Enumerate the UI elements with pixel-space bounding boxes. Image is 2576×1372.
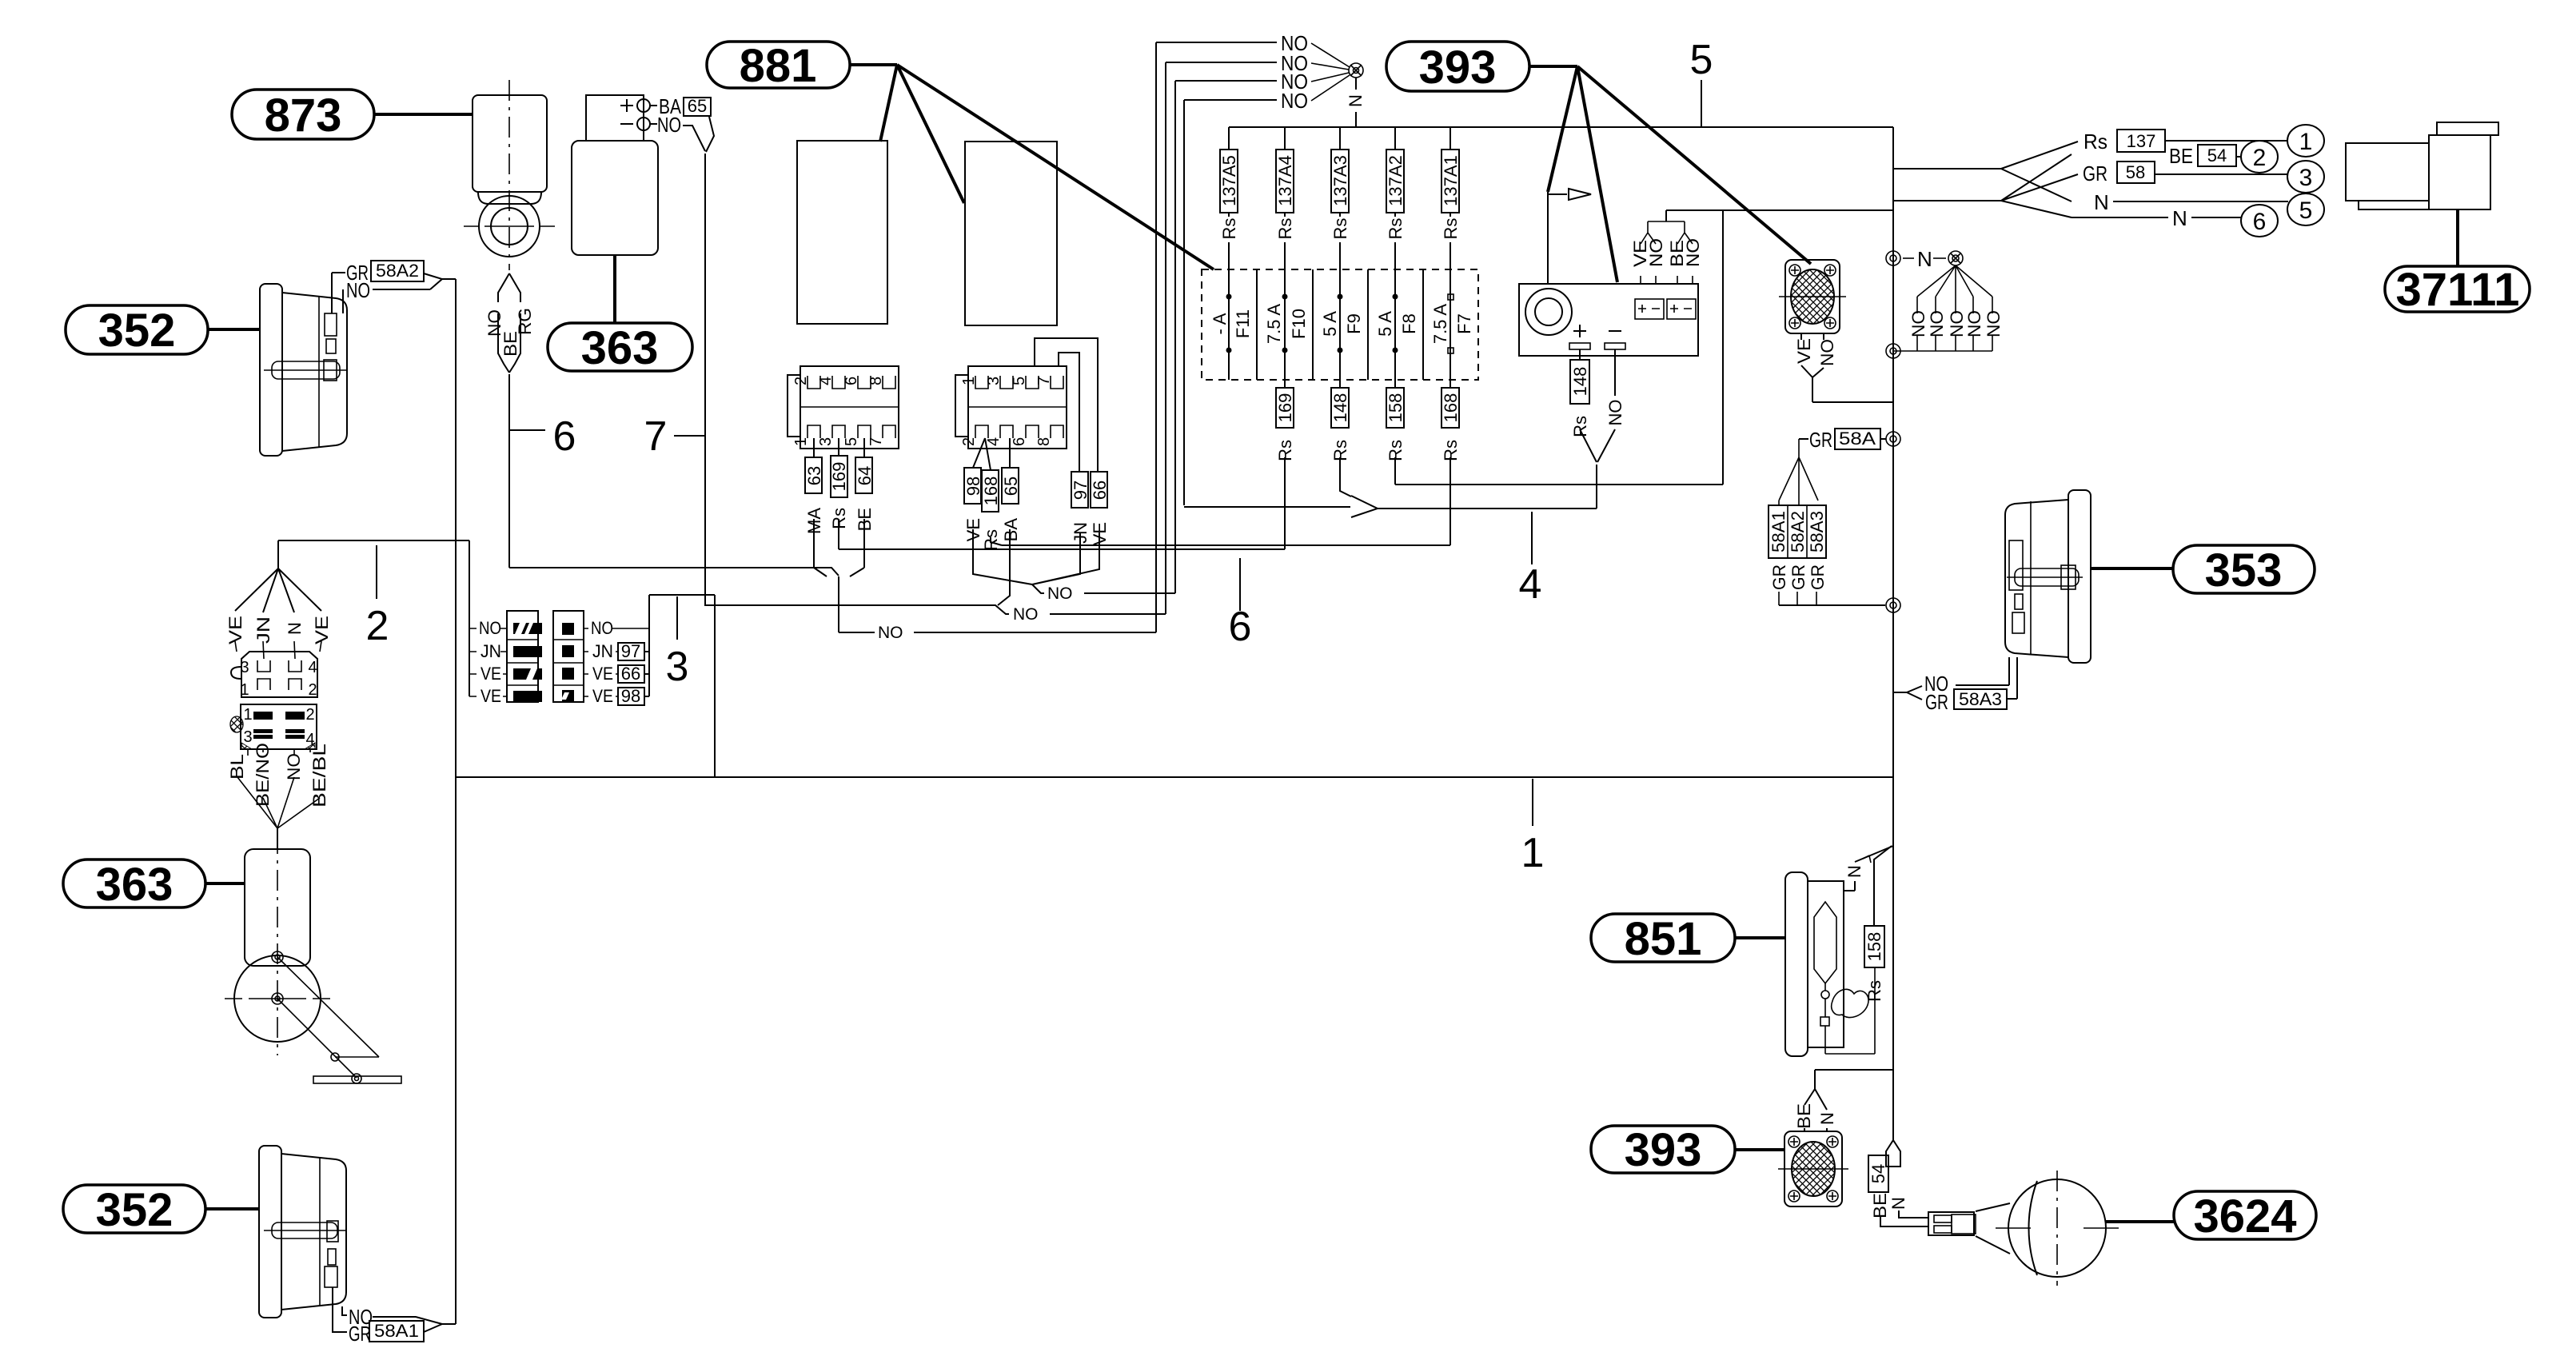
svg-text:NO: NO [878, 624, 903, 642]
svg-text:5 A: 5 A [1320, 311, 1340, 337]
svg-text:4: 4 [985, 437, 1003, 446]
svg-text:NO: NO [1927, 310, 1947, 337]
svg-text:GR: GR [1788, 564, 1808, 590]
svg-text:6: 6 [1011, 437, 1028, 446]
svg-text:Rs: Rs [1441, 218, 1461, 240]
svg-text:3: 3 [2299, 165, 2313, 191]
svg-text:RG: RG [515, 308, 535, 335]
svg-text:168: 168 [1441, 393, 1461, 423]
svg-text:6: 6 [843, 377, 860, 385]
svg-text:NO: NO [1964, 310, 1984, 337]
svg-text:Rs: Rs [1386, 218, 1406, 240]
svg-text:137: 137 [2127, 131, 2156, 151]
svg-text:5: 5 [1011, 377, 1028, 385]
svg-text:BE: BE [1794, 1103, 1814, 1129]
svg-text:F11: F11 [1233, 309, 1253, 338]
svg-text:363: 363 [581, 322, 659, 374]
svg-text:63: 63 [804, 466, 824, 485]
svg-text:393: 393 [1625, 1124, 1702, 1176]
svg-text:NO: NO [591, 618, 613, 638]
svg-text:N: N [1888, 1197, 1908, 1210]
svg-text:7.5 A: 7.5 A [1264, 304, 1284, 344]
svg-text:N: N [2172, 206, 2187, 230]
svg-text:1: 1 [240, 681, 249, 699]
svg-text:5: 5 [2299, 197, 2313, 224]
svg-text:3: 3 [985, 377, 1003, 385]
svg-text:BE: BE [1870, 1193, 1890, 1218]
svg-text:GR: GR [1925, 690, 1948, 714]
svg-text:58A1: 58A1 [374, 1321, 419, 1341]
svg-text:N: N [1917, 247, 1932, 271]
svg-text:352: 352 [98, 305, 176, 357]
svg-text:58A1: 58A1 [1769, 511, 1788, 552]
svg-text:98: 98 [621, 686, 640, 706]
svg-text:NO: NO [1605, 400, 1625, 426]
svg-text:NO: NO [1817, 339, 1837, 366]
svg-text:NO: NO [346, 278, 370, 302]
svg-text:1: 1 [1521, 830, 1545, 876]
svg-text:851: 851 [1625, 913, 1702, 965]
svg-text:7: 7 [867, 437, 885, 446]
svg-text:GR: GR [1808, 564, 1828, 590]
svg-text:NO: NO [1047, 584, 1073, 603]
svg-text:F9: F9 [1344, 313, 1364, 334]
svg-text:F10: F10 [1289, 309, 1309, 339]
svg-text:NO: NO [479, 618, 501, 638]
svg-text:148: 148 [1330, 393, 1350, 423]
svg-text:VE: VE [592, 686, 613, 706]
svg-text:Rs: Rs [1275, 218, 1295, 240]
svg-text:3: 3 [243, 728, 252, 746]
svg-text:97: 97 [621, 641, 640, 661]
svg-text:GR: GR [1769, 564, 1789, 590]
svg-text:2: 2 [2253, 145, 2267, 171]
svg-text:BL: BL [227, 754, 247, 780]
svg-text:2: 2 [308, 681, 317, 699]
svg-text:54: 54 [2207, 146, 2227, 166]
svg-text:NO: NO [1646, 238, 1666, 267]
svg-text:6: 6 [553, 413, 576, 460]
svg-text:JN: JN [481, 641, 501, 661]
svg-text:1: 1 [960, 377, 978, 385]
svg-text:Rs: Rs [2084, 130, 2107, 154]
svg-text:4: 4 [1519, 561, 1542, 608]
svg-text:N: N [1817, 1112, 1837, 1125]
svg-text:NO: NO [284, 753, 304, 780]
svg-text:158: 158 [1386, 393, 1406, 423]
svg-text:37111: 37111 [2396, 264, 2520, 316]
svg-text:BE/NO: BE/NO [253, 743, 273, 807]
svg-text:65: 65 [1001, 477, 1021, 496]
svg-text:VE: VE [592, 664, 613, 684]
svg-text:353: 353 [2205, 544, 2283, 596]
svg-text:352: 352 [96, 1184, 173, 1236]
svg-text:3: 3 [817, 437, 835, 446]
svg-text:58A2: 58A2 [376, 261, 419, 281]
svg-text:- A: - A [1210, 313, 1230, 334]
svg-text:66: 66 [1090, 481, 1110, 500]
svg-text:NO: NO [1281, 89, 1308, 113]
svg-text:54: 54 [1868, 1164, 1888, 1183]
svg-text:VE: VE [481, 686, 501, 706]
svg-text:VE: VE [1794, 338, 1814, 364]
svg-text:6: 6 [1229, 604, 1252, 650]
svg-text:168: 168 [981, 477, 1001, 506]
svg-text:GR: GR [2083, 162, 2107, 185]
svg-text:137A1: 137A1 [1441, 155, 1461, 206]
svg-text:NO: NO [1683, 238, 1703, 267]
svg-text:3: 3 [240, 659, 249, 676]
svg-text:137A5: 137A5 [1219, 155, 1239, 206]
svg-text:VE: VE [312, 616, 332, 644]
svg-text:137A4: 137A4 [1275, 155, 1295, 206]
svg-text:BA: BA [1001, 518, 1021, 542]
svg-text:2: 2 [960, 437, 978, 446]
svg-text:58A3: 58A3 [1807, 511, 1827, 552]
svg-text:58A: 58A [1839, 429, 1876, 449]
svg-text:873: 873 [265, 90, 342, 142]
svg-text:66: 66 [621, 664, 640, 684]
svg-text:N: N [2094, 190, 2109, 214]
svg-text:4: 4 [817, 377, 835, 385]
svg-text:3624: 3624 [2193, 1191, 2296, 1242]
svg-text:Rs: Rs [1219, 218, 1239, 240]
svg-text:NO: NO [1013, 605, 1039, 624]
svg-text:97: 97 [1071, 481, 1091, 500]
svg-text:2: 2 [366, 603, 389, 649]
svg-text:148: 148 [1570, 367, 1590, 397]
svg-text:NO: NO [657, 113, 681, 137]
svg-text:8: 8 [867, 377, 885, 385]
svg-text:169: 169 [829, 462, 849, 492]
svg-text:Rs: Rs [1330, 218, 1350, 240]
svg-text:JN: JN [253, 616, 273, 644]
svg-text:BE: BE [500, 331, 520, 357]
svg-text:GR: GR [349, 1322, 371, 1346]
svg-text:NO: NO [1908, 310, 1928, 337]
svg-text:VE: VE [225, 616, 245, 644]
svg-text:N: N [1346, 94, 1366, 107]
svg-text:JN: JN [592, 641, 613, 661]
svg-text:F8: F8 [1399, 313, 1419, 334]
svg-text:5: 5 [1690, 37, 1713, 83]
svg-text:7: 7 [644, 413, 668, 460]
svg-text:1: 1 [2299, 129, 2313, 155]
svg-text:8: 8 [1035, 437, 1053, 446]
svg-text:58A2: 58A2 [1788, 511, 1808, 552]
svg-text:137A2: 137A2 [1386, 155, 1406, 206]
svg-text:Rs: Rs [1570, 416, 1590, 437]
svg-text:5 A: 5 A [1375, 311, 1395, 337]
svg-text:363: 363 [96, 859, 173, 911]
svg-text:VE: VE [481, 664, 501, 684]
svg-text:58: 58 [2126, 162, 2145, 182]
svg-text:2: 2 [792, 377, 810, 385]
svg-text:6: 6 [2253, 209, 2267, 235]
svg-text:3: 3 [666, 644, 689, 690]
svg-text:64: 64 [855, 466, 875, 485]
svg-text:Rs: Rs [1864, 980, 1884, 1002]
svg-text:GR: GR [1809, 428, 1832, 452]
svg-text:65: 65 [688, 96, 707, 116]
svg-text:N: N [285, 622, 305, 635]
svg-text:881: 881 [740, 40, 817, 92]
svg-text:58A3: 58A3 [1959, 689, 2002, 709]
svg-text:7.5 A: 7.5 A [1430, 304, 1450, 344]
svg-text:7: 7 [1035, 377, 1053, 385]
svg-text:BE: BE [2169, 144, 2193, 168]
svg-text:1: 1 [792, 437, 810, 446]
svg-text:N: N [1844, 865, 1864, 878]
svg-text:169: 169 [1275, 393, 1295, 423]
svg-text:393: 393 [1419, 42, 1497, 94]
svg-text:F7: F7 [1454, 313, 1474, 334]
svg-text:2: 2 [305, 706, 314, 724]
svg-text:4: 4 [308, 659, 317, 676]
svg-text:NO: NO [1984, 310, 2004, 337]
svg-text:137A3: 137A3 [1330, 155, 1350, 206]
svg-text:1: 1 [243, 706, 252, 724]
svg-text:158: 158 [1864, 932, 1884, 962]
svg-text:5: 5 [843, 437, 860, 446]
